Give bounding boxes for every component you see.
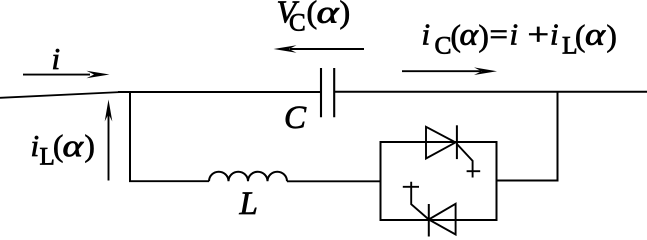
- wire: box right to right vertical: [497, 180, 558, 182]
- svg-text:i: i: [52, 41, 61, 76]
- svg-text:iL(α): iL(α): [31, 128, 95, 171]
- thyristor box: [381, 142, 497, 220]
- wire: top line from junction to capacitor left plate: [118, 91, 320, 93]
- svg-text:C: C: [284, 100, 307, 136]
- svg-text:L: L: [239, 186, 258, 222]
- wire: inductor to thyristor box: [287, 180, 381, 182]
- thyristor top (on box top edge, pointing right): [426, 127, 456, 159]
- svg-text:iC(α)=i+iL(α): iC(α)=i+iL(α): [422, 17, 617, 60]
- wire: left vertical branch: [129, 92, 131, 182]
- thyristor bottom (on box bottom edge, pointing left): [429, 204, 456, 235]
- arrow for current i: [23, 74, 90, 76]
- thyristor top gate lead with plus: [457, 144, 473, 178]
- thyristor bottom gate lead with plus: [411, 182, 429, 220]
- wire: bottom left horizontal to inductor: [129, 180, 209, 182]
- arrow for iL (up): [108, 114, 110, 181]
- svg-text:VC(α): VC(α): [277, 0, 351, 37]
- wire: top line from capacitor right plate to right image edge: [335, 91, 647, 93]
- arrow for VC (left): [290, 48, 364, 50]
- arrow for iC (right): [402, 70, 481, 72]
- inductor L: [209, 172, 287, 182]
- thyristor top cathode bar: [456, 125, 458, 159]
- wire: main top line left slanted segment from image edge to junction: [0, 92, 122, 98]
- thyristor bottom cathode bar: [428, 204, 430, 237]
- capacitor C: [321, 68, 334, 117]
- wire: right vertical branch: [557, 92, 559, 182]
